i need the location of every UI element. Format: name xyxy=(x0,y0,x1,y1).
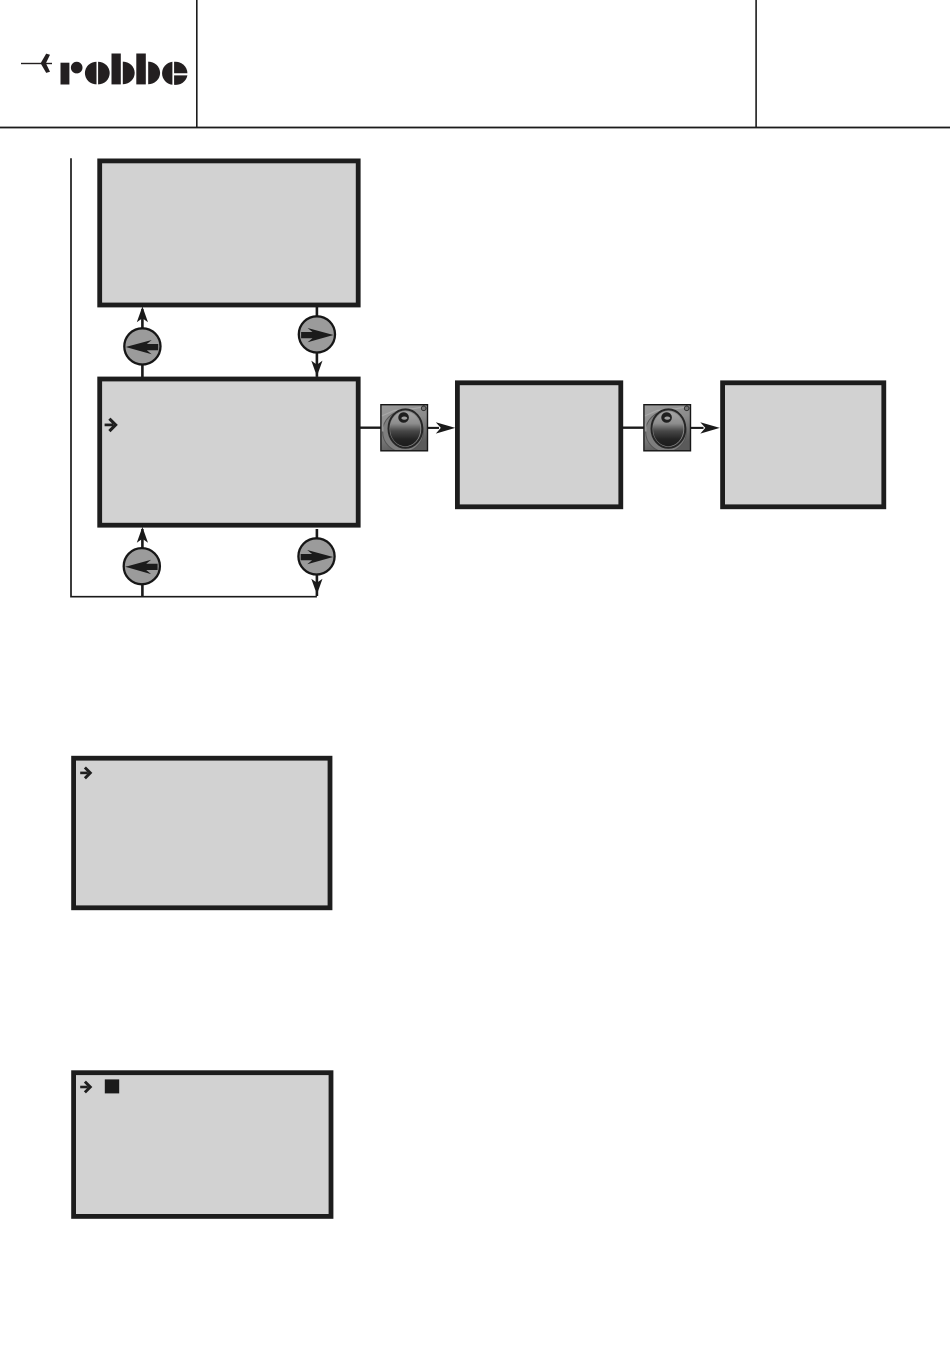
header divider: left vertical rule xyxy=(196,0,198,128)
button: lower-right (plus key, arrow right) xyxy=(298,538,334,574)
robbe logo: letter r xyxy=(61,62,83,85)
wire: box3 to knob photo 2 xyxy=(622,427,644,429)
button: lower-left (minus key, arrow left) xyxy=(124,548,160,584)
button: upper-left (minus key, arrow left) xyxy=(124,328,160,364)
arrowhead up into box1 xyxy=(137,307,148,323)
wire: box1-box2 right connector xyxy=(316,307,319,377)
3D button photo 2 xyxy=(644,405,691,452)
3D button photo 1 xyxy=(381,405,428,452)
wire: box1-box2 left connector xyxy=(141,309,144,377)
wire: box2-loop right connector xyxy=(316,529,319,596)
robbe logo: letter e xyxy=(162,62,187,85)
header bottom rule xyxy=(0,127,950,129)
wire+dart: photo1 to box3 xyxy=(428,422,455,433)
robbe logo: letter o xyxy=(85,62,110,85)
cursor arrow inside box 6 xyxy=(80,1082,90,1093)
robbe logo: plane tail line xyxy=(21,63,52,64)
box 6 (display screen, bottom) xyxy=(74,1073,331,1217)
arrowhead down into box2 xyxy=(311,361,322,377)
button: upper-right (plus key, arrow right) xyxy=(299,316,335,352)
black square cursor block inside box 6 xyxy=(105,1079,119,1093)
box 2 (display screen, main) xyxy=(100,379,359,525)
arrowhead up into box2 xyxy=(137,527,148,543)
wire+dart: photo2 to box4 xyxy=(691,422,720,433)
robbe logo: letter b (first) xyxy=(112,54,135,85)
robbe logo: letter b (second) xyxy=(136,54,160,85)
cursor arrow inside box 2 xyxy=(105,419,116,431)
box 3 (display screen) xyxy=(457,383,620,507)
robbe logo: plane chevron xyxy=(41,54,50,73)
box 4 (display screen) xyxy=(723,383,884,507)
wire: left return loop (vertical + bottom horizontal) xyxy=(71,158,317,596)
box 5 (display screen, middle) xyxy=(74,758,330,908)
wire: box2-loop left connector xyxy=(141,529,144,597)
header divider: right vertical rule xyxy=(755,0,757,128)
arrowhead down into loop line xyxy=(311,579,322,595)
box 1 (display screen, top) xyxy=(100,161,359,305)
wire: box2 to knob photo 1 xyxy=(360,427,382,429)
cursor arrow inside box 5 xyxy=(80,768,90,779)
